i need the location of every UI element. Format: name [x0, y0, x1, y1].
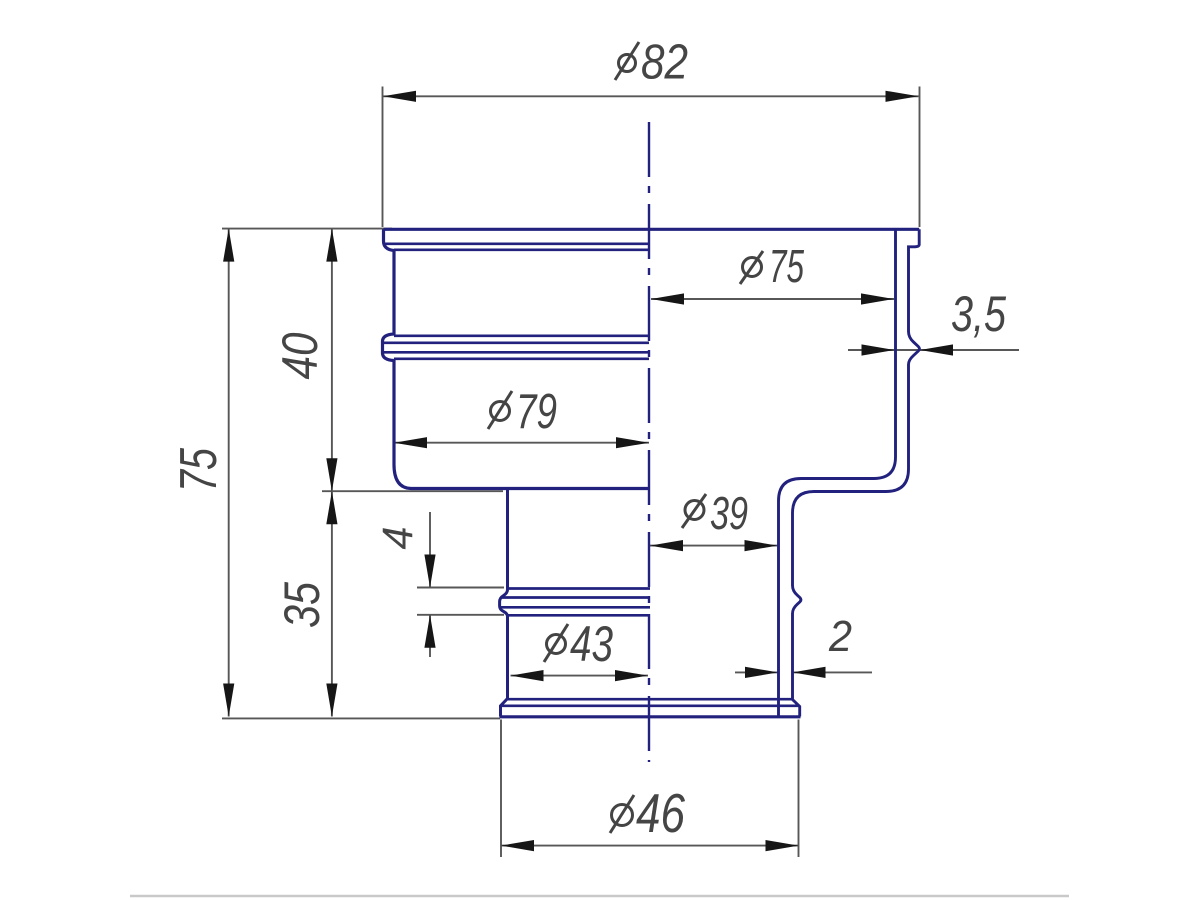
dimension 75 (left overall height) [170, 229, 234, 717]
extension line phi82 left [382, 87, 384, 228]
svg-text:75: 75 [170, 447, 228, 492]
svg-text:79: 79 [516, 385, 557, 439]
svg-text:3,5: 3,5 [951, 286, 1006, 342]
dimension phi43 [511, 616, 649, 681]
dimension phi82 [383, 36, 919, 102]
bottom rim edge lines [508, 698, 793, 701]
extension line phi46 right [798, 720, 800, 858]
svg-text:4: 4 [374, 527, 422, 550]
dimension phi39 [650, 487, 778, 551]
svg-text:46: 46 [636, 782, 685, 844]
page baseline rule [130, 895, 1069, 897]
extension line part bottom (35/75 dims) [222, 717, 500, 719]
dimension 2 [735, 612, 872, 678]
svg-text:2: 2 [828, 612, 852, 661]
dimension 35 (lower section height) [274, 491, 338, 716]
upper bead lines (left half) [394, 334, 649, 337]
dimension 40 (upper section height) [272, 229, 338, 492]
svg-text:40: 40 [272, 332, 328, 379]
svg-text:35: 35 [274, 582, 330, 628]
part bottom face [500, 715, 801, 718]
extension line step bottom (40/35 dims) [322, 490, 503, 492]
extension line bead bottom (4 dim) [417, 614, 504, 616]
lower bead lines (left half) [508, 587, 651, 590]
part right inner wall and step shelf top and lower inner wall [779, 229, 896, 716]
part right outer wall with rim step and bead, step shelf bottom, lower outer wall with bead and flare [793, 229, 920, 716]
extension line phi82 right [919, 87, 921, 228]
centerline (axis) [648, 122, 650, 762]
dimension phi46 [501, 782, 799, 851]
dimension phi79 [394, 385, 649, 448]
extension line phi46 left [500, 720, 502, 858]
dimension phi75 [651, 240, 894, 305]
extension line bead top (4 dim) [417, 587, 504, 589]
dimension 4 [374, 512, 436, 657]
rim inner edge lines (left half) [385, 242, 649, 245]
svg-text:75: 75 [769, 240, 804, 292]
dimension 3,5 [848, 286, 1019, 356]
part upper-left silhouette (rim, wall, bead, corner) [383, 229, 650, 488]
extension line top (40/75 dims) [222, 228, 392, 230]
svg-text:82: 82 [641, 36, 688, 90]
part top face [384, 228, 920, 231]
part lower-left wall with bead and flare [500, 490, 508, 717]
svg-text:39: 39 [710, 487, 748, 539]
svg-text:43: 43 [570, 616, 613, 672]
